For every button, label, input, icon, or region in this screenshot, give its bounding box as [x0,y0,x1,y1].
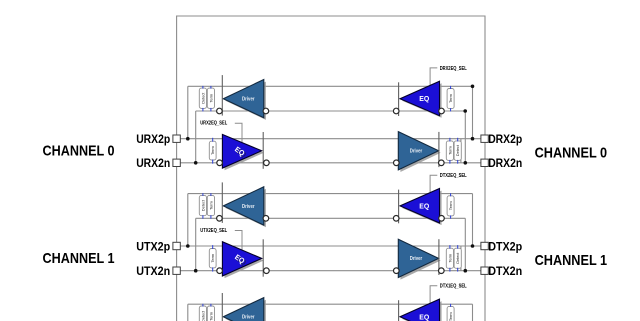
net URX2EQ_SEL elbow wire [235,123,242,142]
svg-text:DTX2p: DTX2p [488,239,522,253]
wire ch1 rowB lower (lane n) [177,270,485,272]
inversion circle ch0 rowA eq output [393,108,399,114]
junction ch0 rowA right n corner [463,109,467,113]
wire ch0 right vertical p (rowA to rowB) [472,86,474,138]
wire ch0 rowB upper (lane p) [177,138,485,140]
svg-text:Detect: Detect [201,92,205,104]
svg-text:Term: Term [210,253,215,263]
inversion circle ch0 rowB driver output [439,160,445,166]
termination ch0 rowB right [446,141,453,161]
svg-text:URX2EQ_SEL: URX2EQ_SEL [200,121,228,127]
wire ch1 rowB upper (lane p) [177,245,485,247]
inversion circle ch1 rowB driver output [439,268,445,274]
svg-text:Detect: Detect [201,199,205,211]
equalizer ch0 rowA output bar [398,82,400,116]
svg-text:CHANNEL 0: CHANNEL 0 [535,145,608,161]
equalizer ch2 rowA right (points left) [199,284,467,321]
wire ch0 rowA upper (lane p) [188,85,473,87]
junction ch1 right n [464,269,468,273]
net DTX2EQ_SEL elbow wire [430,175,437,192]
wire ch1 left vertical p (rowA to rowB) [187,194,189,246]
inversion circle ch0 rowA eq input [439,108,445,114]
equalizer ch0 rowB left (points right) [43,66,608,321]
driver buffer ch0 rowB right (points right) [43,66,608,321]
svg-text:Detect: Detect [456,144,460,156]
termination ch1 rowB left [209,249,216,268]
driver buffer ch1 rowA (points left) [43,173,608,321]
pin UTX2n [173,267,180,274]
termination ch0 rowB left [209,141,216,160]
pin DTX2n [481,267,488,274]
chip boundary outline [177,16,485,321]
svg-text:DTX1EQ_SEL: DTX1EQ_SEL [440,284,468,290]
svg-text:EQ: EQ [419,202,429,211]
net UTX2EQ_SEL elbow wire [235,231,242,250]
svg-text:UTX2p: UTX2p [136,239,170,253]
svg-text:Driver: Driver [242,97,255,103]
equalizer ch1 rowA output bar [398,190,400,224]
junction ch0 right p [471,137,475,141]
svg-text:Term: Term [210,145,215,155]
inversion circle ch0 rowB driver input [394,160,400,166]
svg-text:URX2p: URX2p [136,132,170,146]
svg-text:Driver: Driver [410,256,423,262]
wire ch0 right termination box edge [460,139,462,163]
junction ch0 left n [194,161,198,165]
termination ch0 rowA right [447,89,454,109]
driver buffer ch0 rowA (points left) [43,66,608,321]
inversion circle ch1 rowB eq output [264,268,270,274]
inversion circle ch1 rowB eq input [217,268,223,274]
equalizer ch1 rowA right (points left) [43,173,608,321]
equalizer ch1 rowB left (points right) [43,173,608,321]
wire ch1 right vertical n (rowA to rowB) [464,218,466,270]
wire ch1 rowA lower (lane n) [196,217,466,219]
svg-text:Term: Term [208,200,213,210]
svg-text:DRX2n: DRX2n [488,156,522,170]
junction ch1 left n [194,269,198,273]
termination ch2 rowA left [207,306,214,321]
termination ch1 rowA right [447,196,454,216]
pin DRX2p [481,135,488,142]
driver ch2 rowA output bar [221,293,223,321]
wire ch2 right vertical p (rowA to rowB) [472,304,474,321]
termination ch1 rowB right [446,248,453,268]
svg-text:Driver: Driver [410,149,423,155]
detect block ch1 rowB right [454,248,461,268]
wire ch0 left vertical p (rowA to rowB) [187,86,189,138]
wire ch2 rowA upper (lane p) [188,303,473,305]
driver buffer ch2 rowA (points left) [199,284,467,321]
svg-text:Driver: Driver [242,204,255,210]
wire ch1 right vertical p (rowA to rowB) [472,194,474,246]
wire ch0 rowA lower (lane n) [196,110,466,112]
net DRX2EQ_SEL elbow wire [430,68,437,85]
wire ch0 right vertical n (rowA to rowB) [464,111,466,163]
wire ch2 left vertical p (rowA to rowB) [187,304,189,321]
svg-text:EQ: EQ [419,312,429,321]
junction ch1 right p [471,244,475,248]
driver buffer ch1 rowB right (points right) [43,173,608,321]
inversion circle ch1 rowA eq input [439,216,445,222]
svg-text:DRX2EQ_SEL: DRX2EQ_SEL [440,66,468,72]
detect block ch0 rowB right [454,141,461,161]
junction ch0 rowA right p corner [471,85,475,89]
pin URX2n [173,159,180,166]
svg-text:CHANNEL 1: CHANNEL 1 [43,251,115,267]
svg-text:CHANNEL 0: CHANNEL 0 [43,143,115,159]
svg-text:Term: Term [447,145,452,155]
inversion circle ch1 rowA eq output [393,216,399,222]
termination ch2 rowA right [447,306,454,321]
driver ch0 rowA output bar [221,75,223,116]
svg-text:DTX2EQ_SEL: DTX2EQ_SEL [440,173,468,179]
inversion circle ch1 rowA driver input [263,216,269,222]
detect block ch0 rowA left [199,88,206,108]
wire ch1 left vertical n (rowA to rowB) [195,218,197,270]
detect block ch2 rowA left [199,306,206,321]
junction ch0 left p [186,137,190,141]
pin UTX2p [173,242,180,249]
driver ch1 rowA output bar [221,182,223,223]
wire ch1 right termination box edge [460,246,462,271]
wire ch0 rowB lower (lane n) [177,162,485,164]
svg-text:Term: Term [447,253,452,263]
svg-text:Term: Term [208,311,213,321]
svg-text:UTX2n: UTX2n [136,264,170,278]
pin URX2p [173,135,180,142]
inversion circle ch0 rowA driver output [217,108,223,114]
inversion circle ch1 rowA driver output [217,216,223,222]
wire ch0 left vertical n (rowA to rowB) [195,111,197,163]
inversion circle ch1 rowB driver input [394,268,400,274]
svg-text:DRX2p: DRX2p [488,132,522,146]
svg-text:Term: Term [448,312,453,321]
svg-text:Term: Term [448,201,453,211]
equalizer ch2 rowA output bar [398,300,400,321]
pin DRX2n [481,159,488,166]
svg-text:UTX2EQ_SEL: UTX2EQ_SEL [200,228,228,234]
svg-text:Term: Term [208,93,213,103]
svg-text:DTX2n: DTX2n [488,264,522,278]
svg-text:EQ: EQ [419,94,429,103]
termination ch1 rowA left [207,195,214,215]
equalizer ch0 rowB output bar [262,132,264,169]
inversion circle ch0 rowB eq output [264,160,270,166]
junction ch0 right n [464,161,468,165]
detect block ch1 rowA left [199,195,206,215]
svg-text:Driver: Driver [242,315,255,321]
svg-text:URX2n: URX2n [136,156,170,170]
pin DTX2p [481,242,488,249]
svg-text:Term: Term [448,93,453,103]
termination ch0 rowA left [207,88,214,108]
junction ch1 left p [186,244,190,248]
driver ch0 rowB output bar [438,132,440,167]
inversion circle ch0 rowB eq input [217,160,223,166]
driver ch1 rowB output bar [438,239,440,275]
equalizer ch0 rowA right (points left) [43,66,608,321]
equalizer ch1 rowB output bar [262,239,264,276]
svg-text:Detect: Detect [456,252,460,264]
inversion circle ch0 rowA driver input [263,108,269,114]
net DTX1EQ_SEL elbow wire [430,286,437,303]
svg-text:Detect: Detect [201,310,205,321]
wire ch1 rowA upper (lane p) [188,193,473,195]
svg-text:CHANNEL 1: CHANNEL 1 [535,253,608,269]
